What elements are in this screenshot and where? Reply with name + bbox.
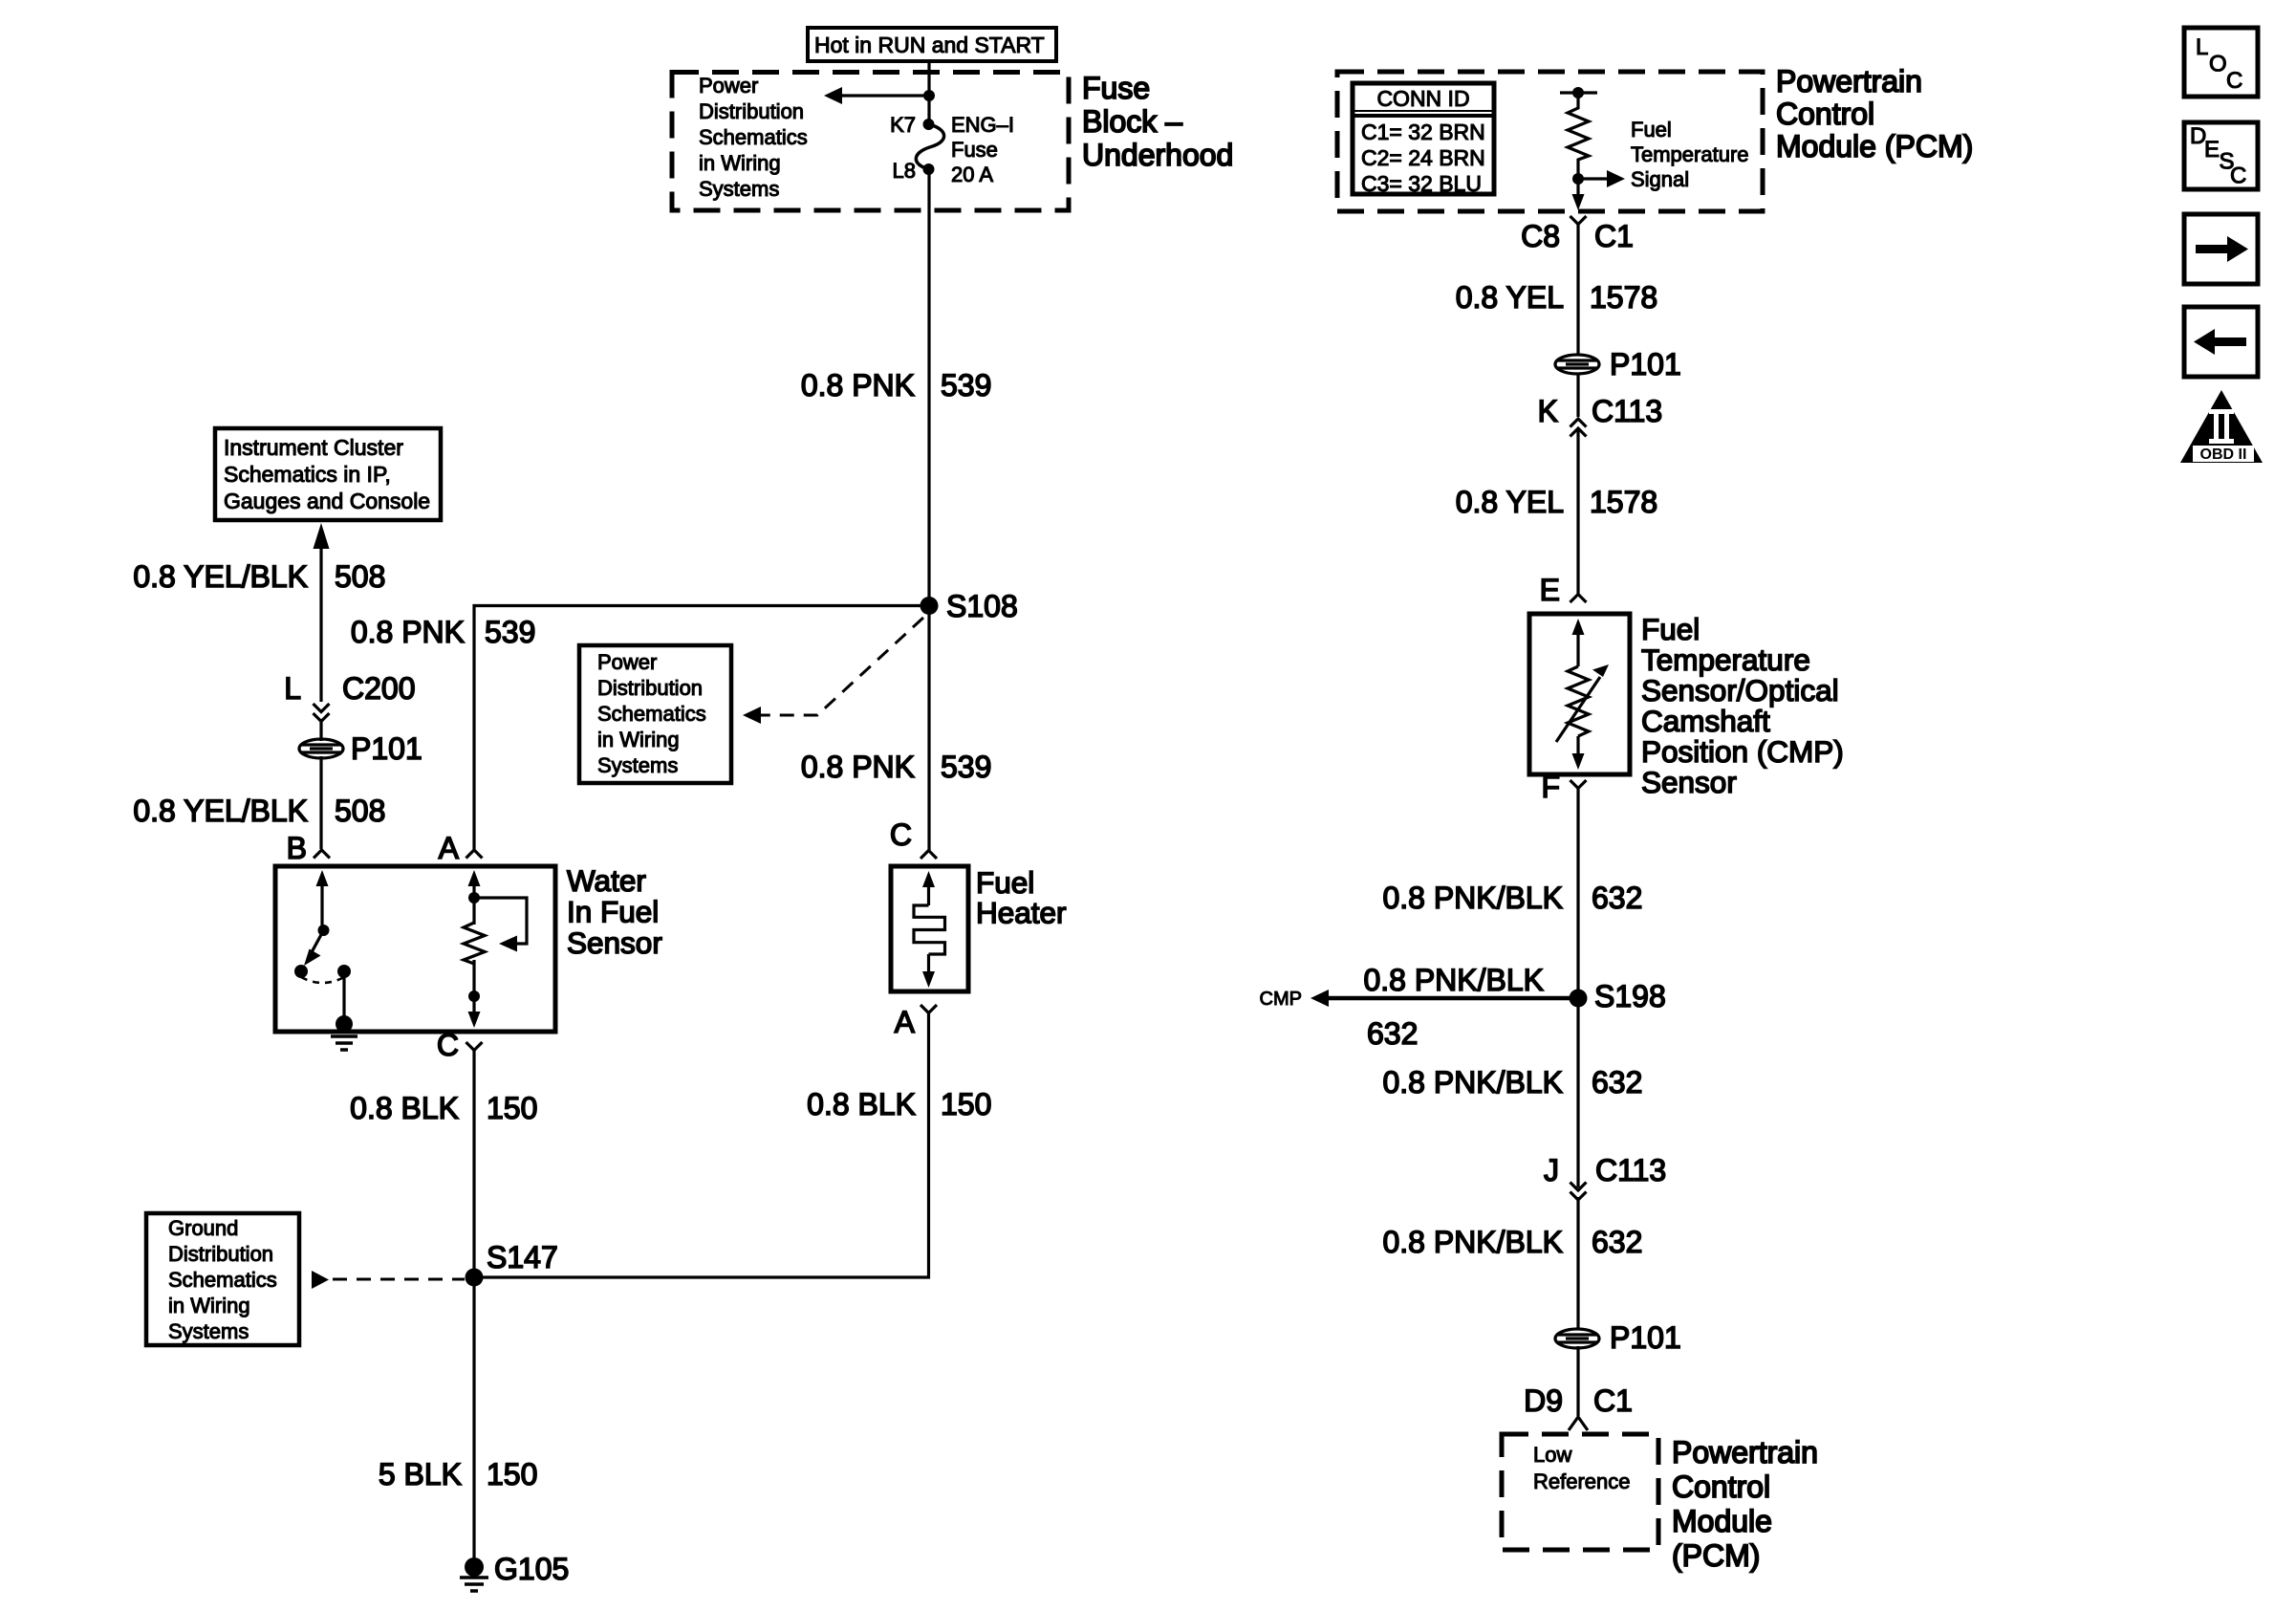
- svg-text:S147: S147: [487, 1240, 558, 1274]
- svg-text:C1= 32 BRN: C1= 32 BRN: [1361, 120, 1485, 144]
- right arrow icon: [2184, 214, 2258, 284]
- connector id table: [1353, 83, 1494, 196]
- svg-text:0.8 PNK: 0.8 PNK: [351, 615, 465, 649]
- fuse ENG-I terminal K7: [890, 113, 934, 137]
- water in fuel sensor label: [567, 863, 662, 960]
- svg-text:C2= 24 BRN: C2= 24 BRN: [1361, 145, 1485, 170]
- dashed reference arrow from S108: [743, 618, 923, 724]
- svg-text:D9: D9: [1524, 1383, 1563, 1418]
- left arrow icon: [2184, 307, 2258, 377]
- terminal A of fuel heater: [895, 1005, 937, 1039]
- svg-text:Temperature: Temperature: [1641, 642, 1810, 677]
- label 0.8 PNK 539 branch: [351, 615, 536, 649]
- svg-text:632: 632: [1367, 1016, 1418, 1051]
- svg-text:C: C: [437, 1028, 459, 1062]
- svg-text:K: K: [1538, 394, 1558, 428]
- svg-text:632: 632: [1592, 1065, 1642, 1099]
- wire between C200 and P101: [319, 719, 322, 741]
- powertrain control module label top: [1776, 64, 1973, 163]
- svg-text:In Fuel: In Fuel: [567, 895, 659, 929]
- terminal F of fuel temperature sensor: [1541, 770, 1586, 804]
- svg-text:C: C: [2230, 163, 2246, 189]
- svg-text:Instrument Cluster: Instrument Cluster: [224, 435, 403, 460]
- svg-text:C3= 32 BLU: C3= 32 BLU: [1361, 171, 1482, 196]
- wire 539 branch from S108 to sensor terminal A: [474, 606, 929, 850]
- svg-text:0.8 YEL/BLK: 0.8 YEL/BLK: [133, 559, 308, 594]
- svg-text:Sensor: Sensor: [567, 925, 662, 960]
- svg-text:150: 150: [941, 1087, 991, 1121]
- ground distribution reference box: [146, 1213, 299, 1345]
- label 0.8 PNK 539 top: [801, 368, 992, 403]
- svg-text:539: 539: [941, 750, 991, 784]
- svg-text:OBD II: OBD II: [2200, 446, 2247, 463]
- fuse ENG-I element: [916, 124, 943, 169]
- svg-text:0.8 PNK/BLK: 0.8 PNK/BLK: [1382, 881, 1563, 915]
- svg-text:Fuse: Fuse: [951, 138, 998, 162]
- svg-text:Powertrain: Powertrain: [1672, 1435, 1818, 1469]
- svg-text:C1: C1: [1594, 219, 1634, 253]
- wire 150 from heater A to S147 branch: [474, 1013, 929, 1278]
- label 0.8 PNK/BLK 632 second: [1382, 1065, 1642, 1099]
- wire from hot feed into fuse block: [927, 61, 930, 121]
- svg-text:CMP: CMP: [1260, 989, 1302, 1010]
- wire 539 from S108 to fuel heater: [927, 606, 930, 851]
- svg-text:CONN ID: CONN ID: [1376, 86, 1469, 111]
- svg-text:J: J: [1544, 1153, 1559, 1187]
- svg-text:A: A: [439, 831, 460, 865]
- svg-text:C113: C113: [1592, 394, 1662, 428]
- splice S108: [921, 589, 1018, 623]
- svg-text:Schematics: Schematics: [699, 125, 808, 149]
- svg-text:Reference: Reference: [1533, 1469, 1631, 1493]
- pull-up resistor inside PCM: [1560, 87, 1597, 179]
- power distribution reference box center: [579, 645, 731, 783]
- svg-text:Fuel: Fuel: [1631, 118, 1672, 142]
- svg-text:Ground: Ground: [168, 1216, 238, 1240]
- svg-text:E: E: [2204, 137, 2220, 163]
- wire 508 lower segment: [319, 756, 322, 849]
- svg-text:5 BLK: 5 BLK: [379, 1457, 462, 1491]
- wire 508 upper segment: [319, 546, 322, 702]
- pass-through grommet P101 right lower: [1555, 1320, 1681, 1355]
- label 0.8 YEL/BLK 508 upper: [133, 559, 385, 594]
- svg-text:Distribution: Distribution: [699, 99, 804, 123]
- label 0.8 BLK 150 center: [807, 1087, 991, 1121]
- svg-text:Gauges and Console: Gauges and Console: [224, 489, 430, 513]
- ground inside water in fuel sensor: [331, 1015, 357, 1050]
- svg-text:Distribution: Distribution: [168, 1242, 273, 1266]
- heater element inside fuel heater: [914, 871, 945, 988]
- fuel heater label: [976, 865, 1067, 930]
- svg-text:C8: C8: [1521, 219, 1560, 253]
- svg-text:G105: G105: [494, 1552, 569, 1586]
- svg-text:Schematics: Schematics: [597, 702, 706, 726]
- label 0.8 YEL 1578 upper: [1456, 280, 1657, 315]
- svg-text:in Wiring: in Wiring: [699, 151, 781, 175]
- svg-text:(PCM): (PCM): [1672, 1538, 1760, 1573]
- svg-text:Module: Module: [1672, 1504, 1772, 1538]
- svg-text:Schematics in IP,: Schematics in IP,: [224, 462, 391, 487]
- label 0.8 YEL/BLK 508 lower: [133, 794, 385, 828]
- svg-text:Water: Water: [567, 863, 646, 898]
- svg-text:Power: Power: [699, 74, 758, 98]
- svg-text:Systems: Systems: [699, 177, 779, 201]
- svg-text:S108: S108: [946, 589, 1018, 623]
- svg-text:632: 632: [1592, 881, 1642, 915]
- svg-text:150: 150: [487, 1457, 537, 1491]
- svg-text:Temperature: Temperature: [1631, 142, 1749, 166]
- svg-text:Fuel: Fuel: [1641, 612, 1700, 646]
- svg-text:Position (CMP): Position (CMP): [1641, 734, 1844, 769]
- CMP branch wire: [1260, 963, 1578, 1051]
- fuse ENG-I value label: [951, 113, 1014, 186]
- sensing resistor inside water in fuel sensor: [464, 870, 527, 1028]
- svg-text:Signal: Signal: [1631, 167, 1689, 191]
- svg-text:Control: Control: [1672, 1469, 1770, 1504]
- fuel temperature signal arrow: [1572, 118, 1749, 191]
- svg-text:Hot in RUN and START: Hot in RUN and START: [814, 33, 1045, 57]
- svg-text:L8: L8: [893, 159, 916, 183]
- svg-text:Power: Power: [597, 650, 657, 674]
- svg-text:L: L: [2196, 34, 2208, 60]
- svg-text:C: C: [890, 817, 912, 852]
- fuel heater box: [891, 866, 968, 991]
- junction dot and arrow to power distribution: [824, 87, 935, 104]
- dashed reference arrow to S147: [312, 1271, 465, 1289]
- svg-text:0.8 YEL: 0.8 YEL: [1456, 280, 1564, 315]
- wire 632 below S198: [1576, 998, 1579, 1187]
- svg-text:O: O: [2209, 52, 2227, 77]
- svg-text:P101: P101: [1610, 1320, 1681, 1355]
- svg-text:L: L: [284, 671, 301, 706]
- svg-text:0.8 PNK/BLK: 0.8 PNK/BLK: [1382, 1065, 1563, 1099]
- svg-text:0.8 PNK: 0.8 PNK: [801, 750, 915, 784]
- svg-text:B: B: [287, 831, 307, 865]
- svg-text:1578: 1578: [1590, 280, 1657, 315]
- instrument cluster reference box: [215, 428, 441, 520]
- wire 632 to P101: [1576, 1197, 1579, 1330]
- switch inside water in fuel sensor: [294, 870, 351, 1023]
- svg-text:ENG–I: ENG–I: [951, 113, 1014, 137]
- svg-text:Heater: Heater: [976, 896, 1067, 930]
- connector C113 pin K: [1538, 373, 1662, 437]
- svg-text:P101: P101: [1610, 347, 1681, 381]
- wire 150 from S147 to G105: [472, 1277, 475, 1565]
- svg-text:C: C: [2226, 68, 2242, 94]
- svg-text:20 A: 20 A: [951, 163, 993, 186]
- wire 632 from F to S198: [1576, 789, 1579, 999]
- LOC icon: [2184, 28, 2258, 97]
- DESC icon: [2184, 122, 2258, 189]
- label 0.8 YEL 1578 lower: [1456, 485, 1657, 519]
- svg-text:C1: C1: [1593, 1383, 1633, 1418]
- label 0.8 PNK/BLK 632 first: [1382, 881, 1642, 915]
- OBD II icon: [2180, 390, 2263, 463]
- label 0.8 PNK/BLK 632 third: [1382, 1225, 1642, 1259]
- connector C200 pin L: [284, 671, 415, 722]
- svg-text:Sensor: Sensor: [1641, 765, 1737, 799]
- svg-text:0.8 YEL: 0.8 YEL: [1456, 485, 1564, 519]
- svg-text:Sensor/Optical: Sensor/Optical: [1641, 673, 1839, 708]
- wire 539 from fuse to S108: [927, 169, 930, 606]
- svg-text:632: 632: [1592, 1225, 1642, 1259]
- connector C1 pin C8: [1521, 216, 1634, 253]
- svg-text:S198: S198: [1594, 979, 1666, 1013]
- svg-text:Camshaft: Camshaft: [1641, 704, 1770, 738]
- svg-text:Fuse: Fuse: [1082, 71, 1150, 105]
- terminal C below water in fuel sensor: [437, 1028, 483, 1062]
- svg-text:Low: Low: [1533, 1443, 1571, 1467]
- svg-text:0.8 YEL/BLK: 0.8 YEL/BLK: [133, 794, 308, 828]
- svg-text:F: F: [1541, 770, 1560, 804]
- svg-text:0.8 PNK: 0.8 PNK: [801, 368, 915, 403]
- svg-text:Block –: Block –: [1082, 104, 1182, 139]
- svg-text:A: A: [895, 1005, 916, 1039]
- svg-text:K7: K7: [890, 113, 916, 137]
- svg-text:539: 539: [941, 368, 991, 403]
- powertrain control module label bottom: [1672, 1435, 1818, 1573]
- fuse ENG-I terminal L8: [893, 159, 935, 183]
- low reference dashed box: [1502, 1434, 1658, 1550]
- svg-text:Systems: Systems: [168, 1319, 249, 1343]
- power distribution reference text in fuse block: [699, 74, 808, 201]
- label 5 BLK 150: [379, 1457, 538, 1491]
- fuse block underhood label: [1082, 71, 1233, 172]
- svg-text:E: E: [1540, 573, 1560, 607]
- pass-through grommet P101 left: [299, 731, 422, 766]
- terminal E of fuel temperature sensor: [1540, 573, 1587, 607]
- svg-text:C113: C113: [1595, 1153, 1666, 1187]
- fuel temperature sensor label: [1641, 612, 1844, 799]
- svg-text:0.8 PNK/BLK: 0.8 PNK/BLK: [1363, 963, 1544, 997]
- pass-through grommet P101 right upper: [1555, 347, 1681, 381]
- svg-text:in Wiring: in Wiring: [168, 1294, 250, 1317]
- signal wire to pin C8: [1572, 179, 1585, 210]
- ground G105: [460, 1552, 569, 1591]
- wire 1578 lower: [1576, 430, 1579, 594]
- splice S198: [1570, 979, 1666, 1013]
- svg-text:Underhood: Underhood: [1082, 138, 1233, 172]
- fuse block underhood dashed box: [672, 73, 1069, 211]
- water in fuel sensor box: [275, 866, 555, 1032]
- svg-text:539: 539: [485, 615, 535, 649]
- svg-text:Distribution: Distribution: [597, 676, 703, 700]
- svg-text:Module (PCM): Module (PCM): [1776, 129, 1973, 163]
- terminal C of fuel heater: [890, 817, 937, 859]
- svg-text:150: 150: [487, 1091, 537, 1125]
- svg-text:1578: 1578: [1590, 485, 1657, 519]
- svg-text:C200: C200: [342, 671, 416, 706]
- connector C1 pin D9: [1524, 1346, 1633, 1430]
- label 0.8 PNK 539 lower: [801, 750, 992, 784]
- fuel temperature sensor box: [1529, 614, 1630, 774]
- terminal B of water in fuel sensor: [287, 831, 330, 865]
- powertrain control module dashed box top: [1337, 72, 1763, 211]
- svg-text:in Wiring: in Wiring: [597, 728, 680, 751]
- label 0.8 BLK 150 left: [350, 1091, 537, 1125]
- splice S147: [466, 1240, 558, 1287]
- svg-text:P101: P101: [351, 731, 422, 766]
- svg-text:508: 508: [335, 559, 385, 594]
- arrow to instrument cluster: [314, 523, 330, 549]
- terminal A of water in fuel sensor: [439, 831, 483, 865]
- svg-text:Systems: Systems: [597, 753, 678, 777]
- thermistor inside fuel temperature sensor: [1556, 619, 1609, 770]
- svg-text:508: 508: [335, 794, 385, 828]
- wire 150 from sensor C to S147: [472, 1051, 475, 1278]
- svg-text:0.8 PNK/BLK: 0.8 PNK/BLK: [1382, 1225, 1563, 1259]
- svg-text:Schematics: Schematics: [168, 1268, 277, 1292]
- hot in run and start label box: [808, 28, 1056, 61]
- svg-text:Control: Control: [1776, 97, 1874, 131]
- svg-text:0.8 BLK: 0.8 BLK: [807, 1087, 916, 1121]
- svg-text:0.8 BLK: 0.8 BLK: [350, 1091, 459, 1125]
- svg-text:Powertrain: Powertrain: [1776, 64, 1922, 98]
- wire 1578 upper: [1576, 225, 1579, 357]
- connector C113 pin J: [1544, 1153, 1666, 1200]
